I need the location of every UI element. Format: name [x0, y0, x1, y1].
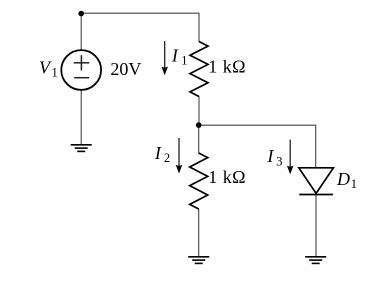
svg-text:V: V [39, 57, 52, 77]
svg-text:1: 1 [351, 177, 357, 191]
svg-text:I: I [266, 146, 274, 166]
svg-text:2: 2 [164, 151, 170, 165]
svg-text:I: I [154, 143, 162, 163]
svg-text:1: 1 [181, 53, 187, 67]
svg-text:1 kΩ: 1 kΩ [208, 56, 246, 76]
svg-text:I: I [171, 46, 179, 66]
svg-text:20V: 20V [110, 59, 141, 79]
svg-text:3: 3 [276, 154, 282, 168]
svg-text:D: D [336, 169, 350, 189]
svg-text:1: 1 [52, 65, 58, 79]
svg-text:1 kΩ: 1 kΩ [208, 167, 246, 187]
